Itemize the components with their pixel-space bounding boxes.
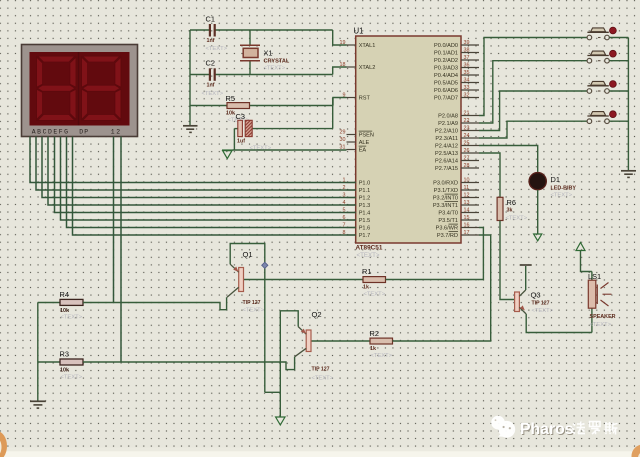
- wire button 1 to right rail: [609, 37, 628, 39]
- svg-text:C1: C1: [206, 15, 215, 24]
- svg-text:35: 35: [464, 70, 470, 76]
- chip U1 right pin 24 P2.3/A11 stub: [461, 137, 479, 139]
- svg-text:25: 25: [464, 140, 470, 146]
- svg-text:P1.5: P1.5: [359, 218, 371, 224]
- svg-text:P2.7/A15: P2.7/A15: [435, 166, 458, 172]
- wire display segment F to P1.5: [61, 137, 356, 221]
- svg-text:P3.2/INT0: P3.2/INT0: [433, 196, 458, 202]
- svg-text:TIP 127: TIP 127: [532, 301, 550, 307]
- wire R3 to Q2 collector with hop: [83, 357, 295, 370]
- resistor R1: [363, 277, 386, 283]
- svg-text:23: 23: [464, 125, 470, 131]
- svg-text:Q2: Q2: [312, 310, 322, 319]
- ground arrow terminal near C3: [222, 149, 232, 151]
- svg-text:30: 30: [340, 137, 346, 143]
- svg-text:D1: D1: [551, 175, 560, 184]
- chip U1 left pin 8 P1.7 stub: [347, 234, 356, 236]
- wire button 4 to right rail: [609, 120, 628, 122]
- svg-text:C3: C3: [236, 112, 245, 121]
- svg-text:29: 29: [340, 129, 346, 135]
- wire P2 pin 23 to button 3: [479, 91, 587, 131]
- resistor R6: [497, 197, 503, 220]
- wire R5 to RST: [333, 98, 347, 106]
- wire P2 pin 21 to button 1: [479, 38, 587, 116]
- chip U1 left pin 7 P1.6 stub: [347, 227, 356, 229]
- watermark corner blob bottom-left: [0, 431, 7, 457]
- svg-text:24: 24: [464, 133, 470, 139]
- svg-text:<TEXT>: <TEXT>: [364, 292, 386, 298]
- svg-text:Q3: Q3: [531, 291, 541, 300]
- svg-text:R3: R3: [60, 350, 69, 359]
- wire display segment E to P1.4: [55, 137, 356, 213]
- svg-text:38: 38: [464, 47, 470, 53]
- svg-text:10k: 10k: [60, 368, 69, 374]
- svg-text:10k: 10k: [226, 111, 235, 117]
- svg-text:14: 14: [464, 207, 470, 213]
- svg-text:1uf: 1uf: [237, 139, 245, 145]
- wire display segment DP to P1.7: [73, 137, 356, 236]
- wire D1 to ground arrow: [537, 190, 539, 234]
- svg-text:P1.2: P1.2: [359, 196, 371, 202]
- wire Q2 emitter loop: [280, 311, 298, 417]
- chip U1 right pin 16 P3.6/WR stub: [461, 227, 479, 229]
- svg-text:AT89C51: AT89C51: [356, 245, 383, 252]
- svg-text:LS1: LS1: [588, 272, 601, 281]
- capacitor C2: [190, 74, 210, 76]
- power bar terminal above Q3: [520, 264, 532, 266]
- svg-text:36: 36: [464, 62, 470, 68]
- chip U1 right pin 11 P3.1/TXD stub: [461, 189, 479, 191]
- wire EA net: [232, 149, 346, 151]
- wire R4 to Q1 collector with hop: [83, 297, 227, 310]
- svg-text:P1.6: P1.6: [359, 226, 371, 232]
- svg-text:<TEXT>: <TEXT>: [357, 252, 380, 259]
- 7-segment display inner area: [30, 52, 130, 126]
- svg-text:1k: 1k: [370, 346, 376, 352]
- svg-text:1k: 1k: [363, 285, 369, 291]
- wire display segment G to P1.6: [67, 137, 356, 228]
- svg-text:P1.4: P1.4: [359, 211, 371, 217]
- 7-segment display digit separator: [78, 52, 80, 126]
- chip U1 left pin 19 XTAL1 stub: [347, 44, 356, 46]
- svg-text:<TEXT>: <TEXT>: [506, 216, 528, 222]
- svg-text:X1: X1: [264, 49, 273, 58]
- speaker LS1 body: [588, 280, 596, 308]
- svg-text:P1.1: P1.1: [359, 188, 371, 194]
- resistor R3: [38, 361, 60, 363]
- wire display digit 1 select: [113, 137, 115, 303]
- push button 1: [587, 35, 592, 40]
- wire display segment A to P1.0: [30, 137, 356, 183]
- push button 2 red indicator: [610, 50, 617, 57]
- chip U1 left pin 3 P1.2 stub: [347, 197, 356, 199]
- power up-arrow terminal above speaker: [576, 243, 585, 251]
- chip U1 left pin 5 P1.4 stub: [347, 212, 356, 214]
- svg-text:P2.1/A9: P2.1/A9: [438, 121, 458, 127]
- wire C3 to EA net: [233, 129, 235, 150]
- watermark text CJK: [572, 422, 618, 435]
- resistor R2: [370, 338, 393, 344]
- 7-segment display module frame: [22, 45, 138, 137]
- capacitor C3 polarized: [253, 128, 333, 130]
- chip U1 right pin 28 P2.7/A15 stub: [461, 167, 479, 169]
- wire display digit 2 select: [120, 137, 122, 363]
- svg-text:P3.1/TXD: P3.1/TXD: [434, 188, 458, 194]
- svg-text:P3.5/T1: P3.5/T1: [438, 218, 458, 224]
- ground arrow terminal below D1: [534, 234, 542, 241]
- svg-text:R1: R1: [362, 267, 371, 276]
- wire display segment D to P1.3: [48, 137, 356, 206]
- capacitor C1: [190, 29, 210, 31]
- svg-text:<TEXT>: <TEXT>: [202, 91, 224, 97]
- svg-text:P1.0: P1.0: [359, 181, 371, 187]
- op chip U1 AT89C51 body: [356, 36, 461, 243]
- svg-text:R6: R6: [507, 198, 516, 207]
- chip U1 right pin 34 P0.5/AD5 stub: [461, 82, 479, 84]
- svg-text:22: 22: [464, 118, 470, 124]
- push button 2: [587, 58, 592, 63]
- chip U1 left pin 29 PSEN stub: [347, 134, 356, 136]
- svg-text:PSEN: PSEN: [359, 133, 374, 139]
- svg-text:1nf: 1nf: [207, 83, 215, 89]
- wire Q1 emitter loop: [230, 244, 265, 393]
- svg-text:27: 27: [464, 155, 470, 161]
- svg-text:37: 37: [464, 55, 470, 61]
- svg-text:P2.2/A10: P2.2/A10: [435, 129, 458, 135]
- chip U1 left pin 30 ALE stub: [347, 141, 356, 143]
- chip U1 right pin 25 P2.4/A12 stub: [461, 145, 479, 147]
- transistor Q2 TIP127: [306, 330, 311, 352]
- wire Q3 emitter to speaker bottom: [526, 314, 592, 333]
- push button 3: [587, 89, 592, 94]
- svg-text:32: 32: [464, 92, 470, 98]
- wire R2 to P3.7 pin 17: [393, 235, 491, 341]
- chip U1 right pin 27 P2.6/A14 stub: [461, 160, 479, 162]
- svg-text:P1.3: P1.3: [359, 203, 371, 209]
- wire C2 to XTAL2: [333, 67, 347, 75]
- ground symbol buttons rail: [621, 170, 636, 172]
- svg-text:26: 26: [464, 148, 470, 154]
- chip U1 right pin 26 P2.5/A13 stub: [461, 152, 479, 154]
- svg-text:P0.0/AD0: P0.0/AD0: [434, 43, 458, 49]
- svg-text:34: 34: [464, 77, 470, 83]
- svg-text:Pharos: Pharos: [520, 421, 574, 438]
- svg-text:P0.1/AD1: P0.1/AD1: [434, 51, 458, 57]
- svg-text:1nf: 1nf: [207, 38, 215, 44]
- svg-text:P2.4/A12: P2.4/A12: [435, 144, 458, 150]
- svg-text:P0.3/AD3: P0.3/AD3: [434, 66, 458, 72]
- wire button 2 to right rail: [609, 60, 628, 62]
- svg-text:P3.7/RD: P3.7/RD: [437, 233, 458, 239]
- wire Q1 base to R1: [244, 279, 363, 281]
- svg-text:<TEXT>: <TEXT>: [206, 46, 228, 52]
- chip U1 left pin 4 P1.3 stub: [347, 204, 356, 206]
- svg-text:P0.7/AD7: P0.7/AD7: [434, 96, 458, 102]
- chip U1 right pin 17 P3.7/RD stub: [461, 234, 479, 236]
- svg-text:28: 28: [464, 163, 470, 169]
- wire display segment C to P1.2: [42, 137, 356, 198]
- svg-text:P3.6/WR: P3.6/WR: [436, 226, 458, 232]
- svg-text:P1.7: P1.7: [359, 233, 371, 239]
- ground symbol left bottom: [30, 400, 46, 402]
- wire display segment B to P1.1: [36, 137, 356, 191]
- svg-text:39: 39: [464, 40, 470, 46]
- svg-text:12: 12: [111, 128, 122, 135]
- svg-text:10: 10: [464, 177, 470, 183]
- svg-text:15: 15: [464, 215, 470, 221]
- svg-text:11: 11: [464, 185, 470, 191]
- chip U1 right pin 35 P0.4/AD4 stub: [461, 74, 479, 76]
- chip U1 right pin 36 P0.3/AD3 stub: [461, 67, 479, 69]
- svg-text:P0.2/AD2: P0.2/AD2: [434, 58, 458, 64]
- resistor R5: [190, 105, 227, 107]
- push button 4: [587, 119, 592, 124]
- svg-text:TIP 127: TIP 127: [312, 367, 330, 373]
- svg-text:RST: RST: [359, 96, 371, 102]
- chip U1 left pin 18 XTAL2 stub: [347, 66, 356, 68]
- chip U1 right pin 37 P0.2/AD2 stub: [461, 59, 479, 61]
- wire Q2 base to R2: [311, 340, 370, 342]
- speaker LS1: [591, 308, 593, 332]
- svg-text:<TEXT>: <TEXT>: [243, 308, 265, 314]
- wire C3 to RST net: [332, 98, 334, 129]
- wire C1 to XTAL1: [333, 30, 347, 45]
- svg-text:<TEXT>: <TEXT>: [532, 308, 554, 314]
- chip U1 right pin 13 P3.3/INT1 stub: [461, 204, 479, 206]
- wire buttons right rail: [627, 38, 629, 171]
- wire Q1 emitter to common ground arrow: [265, 391, 281, 393]
- chip U1 right pin 14 P3.4/T0 stub: [461, 212, 479, 214]
- svg-text:EA: EA: [359, 148, 367, 154]
- svg-text:<TEXT>: <TEXT>: [551, 193, 573, 199]
- svg-text:<TEXT>: <TEXT>: [371, 353, 393, 359]
- resistor R4: [38, 302, 60, 304]
- svg-text:SPEAKER: SPEAKER: [590, 314, 616, 320]
- chip U1 right pin 23 P2.2/A10 stub: [461, 130, 479, 132]
- chip U1 left pin 9 RST stub: [347, 97, 356, 99]
- svg-text:P0.4/AD4: P0.4/AD4: [434, 73, 458, 79]
- svg-text:<TEXT>: <TEXT>: [590, 322, 612, 328]
- svg-text:R2: R2: [370, 329, 379, 338]
- svg-text:XTAL1: XTAL1: [359, 43, 376, 49]
- wire P2 pin 24 to button 4: [479, 121, 587, 138]
- svg-text:3k: 3k: [507, 208, 513, 214]
- svg-text:LED-BIBY: LED-BIBY: [551, 186, 577, 192]
- ground arrow terminal common for Q1 Q2: [276, 417, 285, 425]
- wire left rail C1-C2-ground: [189, 30, 191, 126]
- svg-text:P2.0/A8: P2.0/A8: [438, 114, 458, 120]
- svg-text:U1: U1: [354, 27, 364, 36]
- svg-text:10k: 10k: [60, 308, 69, 314]
- wire R1 to P3.6 pin 16: [386, 228, 484, 280]
- chip U1 right pin 12 P3.2/INT0 stub: [461, 197, 479, 199]
- svg-text:Q1: Q1: [243, 250, 253, 259]
- svg-text:16: 16: [464, 222, 470, 228]
- diode D1 LED: [529, 173, 546, 190]
- svg-text:DP: DP: [79, 128, 89, 135]
- svg-text:P2.5/A13: P2.5/A13: [435, 151, 458, 157]
- svg-text:<TEXT>: <TEXT>: [264, 66, 286, 72]
- push button 3 red indicator: [610, 81, 617, 88]
- svg-text:R5: R5: [226, 94, 235, 103]
- svg-text:33: 33: [464, 85, 470, 91]
- svg-text:R4: R4: [60, 290, 69, 299]
- svg-text:P3.3/INT1: P3.3/INT1: [433, 203, 458, 209]
- wire P2.5 pin 26 to R6: [479, 153, 500, 197]
- chip U1 left pin 1 P1.0 stub: [347, 182, 356, 184]
- chip U1 right pin 38 P0.1/AD1 stub: [461, 52, 479, 54]
- svg-text:21: 21: [464, 110, 470, 116]
- wire R6 to Q3 base: [500, 221, 515, 300]
- wire left ground rail R4 R3: [37, 303, 39, 401]
- svg-text:<TEXT>: <TEXT>: [61, 315, 83, 321]
- 7-segment display left digit 8: [38, 56, 76, 62]
- 7-segment display right digit 8: [83, 56, 121, 62]
- chip U1 left pin 6 P1.5 stub: [347, 219, 356, 221]
- svg-text:ALE: ALE: [359, 140, 370, 146]
- bottom light band: [0, 451, 640, 457]
- svg-text:C2: C2: [206, 59, 215, 68]
- svg-text:13: 13: [464, 200, 470, 206]
- watermark logo bubbles: [491, 416, 515, 438]
- svg-text:P3.0/RXD: P3.0/RXD: [433, 181, 458, 187]
- svg-text:12: 12: [464, 192, 470, 198]
- chip U1 right pin 22 P2.1/A9 stub: [461, 122, 479, 124]
- svg-text:P0.6/AD6: P0.6/AD6: [434, 88, 458, 94]
- svg-text:<TEXT>: <TEXT>: [312, 376, 334, 382]
- chip U1 right pin 33 P0.6/AD6 stub: [461, 89, 479, 91]
- ground symbol left rail: [183, 125, 198, 127]
- svg-text:P2.3/A11: P2.3/A11: [435, 136, 458, 142]
- svg-text:<TEXT>: <TEXT>: [61, 375, 83, 381]
- push button 1 red indicator: [610, 27, 617, 34]
- transistor Q1 TIP127: [239, 268, 244, 292]
- svg-text:TIP 127: TIP 127: [243, 300, 261, 306]
- wire button 3 to right rail: [609, 90, 628, 92]
- chip U1 right pin 39 P0.0/AD0 stub: [461, 44, 479, 46]
- chip U1 right pin 32 P0.7/AD7 stub: [461, 97, 479, 99]
- svg-text:P3.4/T0: P3.4/T0: [438, 211, 458, 217]
- chip U1 right pin 21 P2.0/A8 stub: [461, 115, 479, 117]
- svg-text:XTAL2: XTAL2: [359, 65, 376, 71]
- chip U1 left pin 31 EA stub: [347, 149, 356, 151]
- chip U1 right pin 10 P3.0/RXD stub: [461, 182, 479, 184]
- wire P2 pin 22 to button 2: [479, 61, 587, 123]
- svg-text:P2.6/A14: P2.6/A14: [435, 159, 458, 165]
- svg-text:ABCDEFG: ABCDEFG: [32, 128, 70, 135]
- transistor Q3 TIP127: [515, 292, 520, 312]
- chip U1 left pin 2 P1.1 stub: [347, 189, 356, 191]
- wire Q3 collector to power bar: [525, 266, 527, 290]
- push button 4 red indicator: [610, 111, 617, 118]
- crystal X1: [249, 30, 251, 45]
- svg-text:CRYSTAL: CRYSTAL: [264, 59, 290, 65]
- wire P2.4 pin 25 to D1: [479, 146, 538, 173]
- svg-text:17: 17: [464, 230, 470, 236]
- svg-text:P0.5/AD5: P0.5/AD5: [434, 81, 458, 87]
- node junction diamond on Q1 emitter net: [262, 262, 268, 268]
- chip U1 right pin 15 P3.5/T1 stub: [461, 219, 479, 221]
- watermark corner blob bottom-right: [632, 445, 640, 457]
